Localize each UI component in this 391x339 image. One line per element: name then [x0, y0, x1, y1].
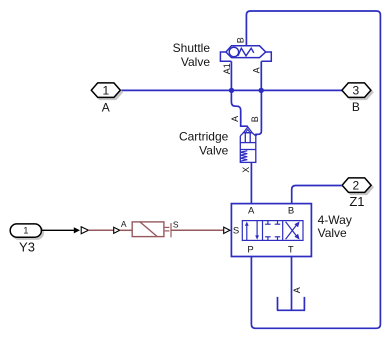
pin label A of converter: [121, 219, 127, 229]
4-way valve icon frame: [242, 221, 303, 241]
cartridge valve poppet inner triangle: [245, 130, 250, 133]
svg-text:B: B: [250, 116, 260, 122]
cartridge valve U2 poppet outer triangle: [243, 127, 252, 133]
cartridge valve poppet stem lines: [245, 133, 250, 143]
label B (port 3): [352, 100, 360, 114]
shuttle valve body hexagon: [226, 46, 266, 58]
svg-text:Shuttle: Shuttle: [173, 41, 211, 55]
label Y3: [19, 239, 35, 254]
4-way valve U3 outer rect: [231, 204, 311, 257]
signal wire Y3 to converter: [42, 229, 74, 231]
label A (port 1): [102, 100, 110, 114]
pin label A of cartridge valve: [230, 116, 240, 122]
svg-text:S: S: [173, 219, 179, 229]
port Y3 shadow: [12, 226, 43, 239]
4-way valve icon right cell crossed arrows: [286, 221, 300, 239]
svg-text:A: A: [292, 287, 302, 293]
svg-text:1: 1: [23, 226, 28, 236]
svg-text:3: 3: [353, 84, 360, 98]
port 3 (B) hexagon: [342, 83, 371, 98]
pin label S of 4-way valve: [233, 226, 239, 237]
svg-text:A: A: [230, 116, 240, 122]
wire converter A stub: [120, 229, 132, 231]
label Z1 (port 2): [349, 194, 364, 209]
pin label A of 4-way valve: [248, 206, 255, 217]
svg-text:1: 1: [102, 84, 109, 98]
port 3 (B) shadow: [344, 85, 373, 100]
port 1 (A) hexagon: [91, 83, 120, 98]
4-way valve icon center cell blocked ports: [265, 221, 280, 241]
pin label X of cartridge valve: [241, 167, 251, 173]
pin label T of 4-way valve: [288, 245, 294, 256]
pin label B of shuttle valve: [236, 37, 246, 43]
svg-text:Cartridge: Cartridge: [179, 129, 229, 143]
svg-text:A: A: [102, 100, 110, 114]
pin label B of 4-way valve: [288, 206, 294, 217]
pin label A1 of shuttle valve: [222, 63, 232, 74]
svg-text:Y3: Y3: [19, 239, 35, 254]
shuttle valve ball: [229, 47, 238, 56]
label Cartridge Valve: [179, 129, 229, 157]
svg-text:Valve: Valve: [199, 143, 228, 157]
converter S port double bar: [165, 223, 171, 237]
pin number 3: [353, 84, 360, 98]
svg-text:B: B: [288, 206, 294, 217]
shuttle valve outline right bracket: [261, 52, 271, 61]
port 2 (Z1) hexagon: [342, 178, 371, 193]
wire big loop shuttle B to 4-way valve P: [246, 11, 380, 328]
shuttle valve spring: [238, 48, 254, 56]
label Shuttle Valve: [173, 41, 211, 69]
wire node A to port3: [261, 89, 342, 91]
cartridge valve body chambers: [240, 143, 256, 163]
svg-text:T: T: [288, 245, 294, 256]
wire 4-way valve T to tank: [291, 257, 293, 311]
svg-text:Valve: Valve: [181, 55, 210, 69]
pin number 2: [353, 178, 360, 192]
cartridge valve poppet flares: [240, 133, 256, 136]
4-way valve icon left cell arrows: [245, 221, 259, 240]
wire port1 to node A1: [120, 89, 231, 91]
pin number 1: [102, 84, 109, 98]
shuttle valve U1 outline left bracket: [220, 52, 231, 61]
pin label P of 4-way valve: [247, 245, 253, 256]
converter U4 block: [132, 222, 164, 237]
wire shuttle valve left leg A1: [230, 61, 232, 90]
svg-text:B: B: [236, 37, 246, 43]
signal wire arrowhead: [74, 227, 80, 233]
converter port A triangle: [114, 227, 120, 233]
wire port2 to 4-way valve B: [292, 186, 342, 204]
wire cartridge X to 4-way valve A: [250, 162, 252, 203]
pin number 1 of Y3: [23, 226, 28, 236]
port 2 (Z1) shadow: [344, 180, 373, 195]
svg-text:Z1: Z1: [349, 194, 364, 209]
pin label A of tank: [292, 287, 302, 293]
port 1 (A) shadow: [93, 85, 122, 100]
pin label B of cartridge valve: [250, 116, 260, 122]
svg-text:Valve: Valve: [318, 226, 347, 240]
tank (hydraulic reference): [277, 297, 305, 310]
svg-text:S: S: [233, 226, 239, 237]
junction node A: [259, 88, 264, 93]
svg-text:A: A: [121, 219, 127, 229]
wire node A1 to node A: [232, 89, 262, 91]
physical wire to converter A: [88, 229, 113, 231]
svg-text:A: A: [251, 67, 261, 73]
svg-text:A: A: [248, 206, 255, 217]
wire node A to cartridge valve port B: [256, 90, 261, 136]
svg-text:B: B: [352, 100, 360, 114]
cartridge valve body sides: [240, 136, 256, 143]
cartridge valve spring: [240, 151, 247, 161]
junction node A1: [229, 88, 234, 93]
wire shuttle valve right leg A: [260, 61, 262, 90]
svg-text:X: X: [241, 167, 251, 173]
svg-text:2: 2: [353, 178, 360, 192]
4-way valve S port triangle: [224, 227, 230, 233]
wire node A1 to cartridge valve port A: [231, 90, 247, 126]
label 4-Way Valve: [318, 213, 352, 240]
physical wire converter to 4-way valve S: [171, 229, 224, 231]
port Y3 oval: [10, 224, 41, 237]
physical signal port triangle: [81, 227, 88, 234]
pin label A of shuttle valve: [251, 67, 261, 73]
svg-text:A1: A1: [222, 63, 232, 74]
svg-text:P: P: [247, 245, 253, 256]
pin label S of converter: [173, 219, 179, 229]
